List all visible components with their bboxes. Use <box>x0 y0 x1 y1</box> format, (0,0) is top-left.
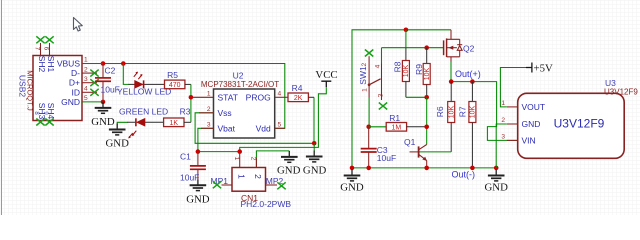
USB2 pins 1-5 leads <box>82 64 103 102</box>
no-connect X pin9 <box>45 119 53 126</box>
USB2 refdes label <box>17 75 27 97</box>
svg-text:C2: C2 <box>105 66 116 76</box>
R9 value 10K <box>424 67 431 80</box>
no-connect X SW1 pin3 <box>379 103 387 110</box>
svg-text:R4: R4 <box>292 83 303 93</box>
svg-text:SH3: SH3 <box>37 103 47 120</box>
connector USB2 MICROQT.J body <box>33 56 82 121</box>
wire top rail to bottom rail left vertical <box>352 30 451 168</box>
IC U2 MCP73831 body <box>214 89 275 138</box>
svg-text:GND: GND <box>61 97 80 107</box>
R3 refdes <box>180 107 191 117</box>
svg-text:MCP73831T-2ACI/OT: MCP73831T-2ACI/OT <box>201 80 279 89</box>
junction gate line / R9 <box>424 45 429 50</box>
R8 refdes <box>393 61 403 72</box>
resistor R3 <box>164 118 184 127</box>
SW1 refdes <box>358 66 368 85</box>
svg-text:+5V: +5V <box>534 63 553 75</box>
C3 refdes <box>377 145 388 155</box>
svg-text:Out(+): Out(+) <box>455 69 481 79</box>
no-connect X on ID <box>90 89 98 96</box>
C1 refdes <box>180 152 191 162</box>
wire SW1 pin1 down to R1 node <box>368 98 370 127</box>
CN1 pin numbers <box>233 157 257 161</box>
LED2 GREEN LED <box>128 118 164 138</box>
R1 refdes <box>389 113 400 123</box>
svg-text:1K: 1K <box>170 120 179 127</box>
junction U3 GND / bottom rail <box>494 166 499 171</box>
U3 refdes <box>605 78 616 88</box>
power flag +5V <box>526 63 553 75</box>
CN1 MP2 pin <box>266 184 278 186</box>
junction R8/R9 bottom <box>424 95 429 100</box>
svg-text:10K: 10K <box>424 67 431 80</box>
svg-text:R9: R9 <box>414 64 424 75</box>
svg-text:PH2.0-2PWB: PH2.0-2PWB <box>241 199 292 209</box>
ground left on bottom rail <box>340 170 364 194</box>
svg-text:1: 1 <box>84 57 88 64</box>
U2 pin numbers <box>207 90 282 128</box>
svg-text:2: 2 <box>250 157 257 161</box>
junction C1 / Vbat <box>196 149 201 154</box>
CN1 MP1 pin <box>222 184 233 186</box>
wire LED2 cathode to ground <box>117 122 128 123</box>
C2 refdes <box>105 66 116 76</box>
power flag VCC <box>315 69 337 87</box>
svg-text:3: 3 <box>501 133 505 140</box>
svg-text:2: 2 <box>253 174 263 179</box>
svg-text:2: 2 <box>501 117 505 124</box>
R5 refdes <box>167 70 178 80</box>
wire VCC to battery-plus rail <box>240 87 327 152</box>
svg-text:3: 3 <box>84 76 88 83</box>
CN1 refdes <box>241 193 258 203</box>
svg-text:VBUS: VBUS <box>57 59 80 69</box>
LED1 YELLOW LED <box>129 72 165 89</box>
MP1 label <box>211 176 229 186</box>
USB2 pin numbers 7,6 <box>33 47 49 51</box>
junction Out(+) / R7 <box>470 79 475 84</box>
svg-text:D+: D+ <box>69 78 80 88</box>
junction VBUS-C2 <box>101 61 106 66</box>
svg-text:10K: 10K <box>448 105 455 118</box>
svg-text:Vbat: Vbat <box>218 123 236 133</box>
module U3 U3V12F9 body <box>518 93 625 158</box>
transistor Q1 NPN <box>410 145 427 168</box>
svg-text:R7: R7 <box>458 106 468 117</box>
no-connect X pin6 <box>45 36 53 43</box>
junction SW1/R1/C3 node <box>366 125 371 130</box>
svg-text:GND: GND <box>340 182 364 194</box>
svg-text:Out(-): Out(-) <box>452 169 476 179</box>
svg-text:GREEN LED: GREEN LED <box>119 106 168 116</box>
svg-text:GND: GND <box>484 182 508 194</box>
Q2 refdes <box>463 43 475 53</box>
CN1 pin names 1,2 <box>236 174 263 179</box>
svg-text:7: 7 <box>33 47 40 51</box>
svg-text:1M: 1M <box>392 125 402 132</box>
R5 value 470 <box>169 82 181 89</box>
svg-text:D-: D- <box>71 68 80 78</box>
svg-text:2: 2 <box>207 106 211 113</box>
connector CN1 body <box>232 168 266 192</box>
ground right on bottom rail <box>484 170 508 194</box>
U3 pin numbers <box>501 100 505 140</box>
no-connect X on D+ <box>90 79 98 86</box>
svg-text:2: 2 <box>84 66 88 73</box>
C3 value 10uF <box>377 153 396 163</box>
resistor R7 <box>469 82 476 168</box>
switch SW1 <box>368 56 382 97</box>
wire VBUS rail from USB pin1 to U2 Vdd corner <box>82 64 285 129</box>
R7 refdes <box>458 106 468 117</box>
svg-text:10uF: 10uF <box>180 173 199 183</box>
resistor R4 <box>288 93 308 102</box>
svg-text:GND: GND <box>186 193 210 205</box>
R9 refdes <box>414 64 424 75</box>
transistor Q2 P-MOSFET <box>444 30 463 82</box>
R4 value 2K <box>294 95 303 102</box>
wire STAT node to U2 pin1 <box>191 96 214 98</box>
wire R3 to STAT node <box>184 121 191 123</box>
U2 refdes <box>233 71 244 81</box>
junction C3 / bottom rail <box>366 166 371 171</box>
svg-text:10K: 10K <box>470 105 477 118</box>
U2 pin names <box>218 92 271 133</box>
no-connect X pin7 <box>36 36 44 43</box>
junction CN1 pin1 <box>237 149 242 154</box>
USB2 pin numbers 8,9 <box>33 111 48 115</box>
svg-text:U2: U2 <box>233 71 244 81</box>
R6 refdes <box>435 106 445 117</box>
svg-text:2: 2 <box>361 62 368 66</box>
junction top rail / R8 <box>404 28 409 33</box>
wire node to R1 <box>369 126 387 128</box>
USB2 pin names SH2 SH1 <box>37 56 56 73</box>
no-connect X SW1 pin2 <box>365 50 373 57</box>
svg-text:U3V12F9: U3V12F9 <box>554 117 605 131</box>
svg-text:Q2: Q2 <box>463 43 475 53</box>
ground under C1 <box>186 179 210 205</box>
U3 pin leads <box>507 107 518 140</box>
resistor R8 <box>402 48 409 98</box>
wire Out(+) rail <box>451 82 518 141</box>
wire gate node column to Q1 collector <box>426 97 428 144</box>
junction R1 / gate column <box>424 125 429 130</box>
svg-text:GND: GND <box>91 116 115 128</box>
ground for CN1 pin2 <box>277 151 301 177</box>
ground under LED2 <box>105 124 129 150</box>
svg-text:1: 1 <box>361 88 368 92</box>
wire battery-plus rail C1 to CN1 <box>198 151 240 153</box>
junction STAT node <box>189 95 194 100</box>
no-connect X pin8 <box>36 119 44 126</box>
wire gate line SW1 to Q2 gate <box>382 47 444 49</box>
wire SW1 pin4 to gate line <box>381 48 383 64</box>
wire R4 to ground rail <box>308 97 314 143</box>
svg-text:10K: 10K <box>403 64 410 77</box>
LED2 label GREEN LED <box>119 106 168 116</box>
svg-text:U3: U3 <box>605 78 616 88</box>
svg-text:1: 1 <box>501 100 505 107</box>
wire U2 Vss to ground rail <box>195 113 314 144</box>
R8 value 10K <box>403 64 410 77</box>
svg-text:STAT: STAT <box>218 92 238 102</box>
wire U3 VOUT to +5V <box>500 68 526 107</box>
no-connect X MP2 <box>277 182 285 189</box>
capacitor C1 <box>190 152 206 180</box>
MP2 label <box>266 176 284 186</box>
svg-text:GND: GND <box>303 165 327 177</box>
svg-text:GND: GND <box>105 138 129 150</box>
svg-text:MP1: MP1 <box>211 176 229 186</box>
svg-text:VIN: VIN <box>522 135 536 145</box>
wire R8 bottom to R9 bottom node <box>406 96 427 98</box>
svg-text:Q1: Q1 <box>404 137 416 147</box>
svg-text:4: 4 <box>278 90 282 97</box>
svg-text:PROG: PROG <box>246 92 271 102</box>
svg-text:MICROQT.J: MICROQT.J <box>26 70 35 111</box>
U2 value MCP73831T-2ACI/OT <box>201 80 279 89</box>
ground below rail junction <box>303 143 327 176</box>
U3 value label U3V12F9 <box>604 88 638 97</box>
svg-text:VCC: VCC <box>315 69 337 81</box>
junction Out(+) / R6 <box>449 79 454 84</box>
capacitor C3 <box>361 127 377 168</box>
R1 value 1M <box>392 125 402 132</box>
wire R1 to gate column <box>407 126 427 128</box>
svg-text:MP2: MP2 <box>266 176 284 186</box>
junction VBUS-LED <box>121 61 126 66</box>
ground under C2 <box>91 102 115 128</box>
svg-text:Vss: Vss <box>218 108 232 118</box>
svg-text:R6: R6 <box>435 106 445 117</box>
wire bottom Out(-) rail <box>352 167 496 169</box>
svg-text:SH1: SH1 <box>46 56 56 73</box>
USB2 shield pins 8,9 leads <box>41 121 50 123</box>
svg-text:4: 4 <box>374 64 381 68</box>
USB2 pin names SH3 SH4 <box>37 103 56 120</box>
no-connect X on D- <box>90 70 98 77</box>
resistor R6 <box>448 82 455 152</box>
USB2 value MICROQT.J <box>26 70 35 111</box>
svg-text:R5: R5 <box>167 70 178 80</box>
svg-text:4: 4 <box>84 86 88 93</box>
svg-text:5: 5 <box>84 95 88 102</box>
sheet border left edge <box>1 0 3 215</box>
svg-text:VOUT: VOUT <box>522 102 546 112</box>
junction bottom rail left / ground <box>350 166 355 171</box>
wire top rail down to R8 <box>405 30 407 48</box>
capacitor C2 <box>95 64 111 102</box>
U2 pin 4,5 leads <box>275 97 288 128</box>
junction Q1 emitter / bottom rail <box>424 166 429 171</box>
svg-text:5: 5 <box>278 121 282 128</box>
C1 value 10uF <box>180 173 199 183</box>
wire U3 GND pin to bottom rail <box>496 124 507 168</box>
SW1 pin3 stub <box>381 80 383 100</box>
USB2 pin numbers 1-5 <box>84 57 88 102</box>
CN1 value PH2.0-2PWB <box>241 199 292 209</box>
wire VBUS to LED1 anode <box>123 64 129 85</box>
R3 value 1K <box>170 120 179 127</box>
svg-text:ID: ID <box>72 87 81 97</box>
svg-text:GND: GND <box>522 119 541 129</box>
svg-text:1: 1 <box>233 157 240 161</box>
U3 big name U3V12F9 <box>554 117 605 131</box>
USB2 pin names <box>57 59 80 107</box>
net label Out(+) <box>455 69 481 79</box>
svg-text:470: 470 <box>169 82 181 89</box>
U3 pin names <box>522 102 546 145</box>
wire R5 to STAT node <box>185 84 191 122</box>
svg-text:SW1: SW1 <box>358 66 368 85</box>
junction ground rail / R4 <box>312 141 317 146</box>
R6 value 10K <box>448 105 455 118</box>
wire CN1 pin2 to ground <box>256 151 289 168</box>
resistor R5 <box>165 80 185 89</box>
LED1 label YELLOW LED <box>117 87 171 97</box>
SW1 pin numbers <box>361 62 384 97</box>
wire R6 bottom to Q1 base <box>419 151 452 153</box>
svg-text:2K: 2K <box>294 95 303 102</box>
net label Out(-) <box>452 169 476 179</box>
resistor R1 <box>386 123 406 132</box>
svg-text:1: 1 <box>236 174 246 179</box>
junction USB GND / C2 <box>101 100 106 105</box>
svg-text:GND: GND <box>277 165 301 177</box>
svg-text:SH4: SH4 <box>46 103 56 120</box>
svg-text:10uF: 10uF <box>377 153 396 163</box>
C2 value 10uF <box>101 85 120 95</box>
USB2 shield pins 7,6 leads <box>41 43 50 56</box>
wire Q2 drain down to Out(+) rail <box>450 57 452 82</box>
junction R7 / bottom rail <box>470 166 475 171</box>
wire U2 Vbat down to battery rail <box>198 128 214 151</box>
svg-text:SH2: SH2 <box>37 56 47 73</box>
CN1 pin1 lead <box>239 152 241 168</box>
svg-text:3: 3 <box>207 121 211 128</box>
no-connect X MP1 <box>213 181 221 188</box>
svg-text:3: 3 <box>377 93 384 97</box>
svg-text:R3: R3 <box>180 107 191 117</box>
svg-text:C1: C1 <box>180 152 191 162</box>
svg-text:1: 1 <box>207 90 211 97</box>
svg-text:Vdd: Vdd <box>256 123 271 133</box>
resistor R9 <box>423 48 430 98</box>
Q1 refdes <box>404 137 416 147</box>
svg-text:6: 6 <box>42 47 49 51</box>
R4 refdes <box>292 83 303 93</box>
mouse cursor <box>74 18 83 32</box>
svg-text:R1: R1 <box>389 113 400 123</box>
svg-text:U3V12F9: U3V12F9 <box>604 88 638 97</box>
R7 value 10K <box>470 105 477 118</box>
svg-text:R8: R8 <box>393 61 403 72</box>
svg-text:YELLOW LED: YELLOW LED <box>117 87 171 97</box>
